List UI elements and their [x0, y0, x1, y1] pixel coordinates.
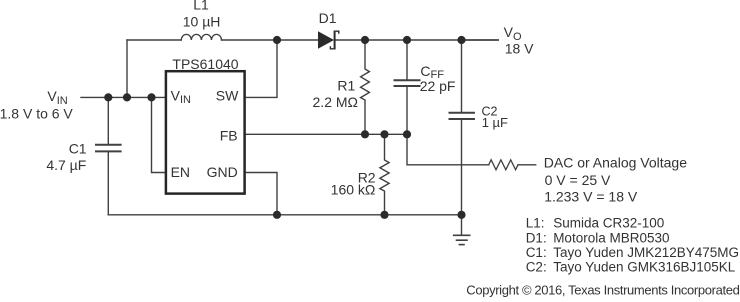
- node dot FB-CFF: [403, 130, 411, 138]
- svg-text:4.7 µF: 4.7 µF: [46, 157, 86, 173]
- svg-text:D1: D1: [319, 10, 337, 26]
- svg-text:FB: FB: [220, 128, 238, 144]
- svg-text:10 µH: 10 µH: [183, 13, 221, 29]
- svg-text:Tayo Yuden JMK212BY475MG: Tayo Yuden JMK212BY475MG: [553, 245, 739, 260]
- capacitor CFF: [395, 40, 420, 134]
- capacitor C1: [96, 97, 121, 214]
- svg-text:1.233 V = 18 V: 1.233 V = 18 V: [544, 189, 638, 205]
- node dot VIN-L1: [123, 93, 131, 101]
- svg-text:C1:: C1:: [526, 245, 547, 260]
- svg-text:C2:: C2:: [526, 260, 547, 275]
- svg-text:22 pF: 22 pF: [420, 78, 456, 94]
- wire VIN lead: [81, 96, 165, 98]
- svg-text:1.8 V to 6 V: 1.8 V to 6 V: [0, 106, 73, 122]
- svg-text:18 V: 18 V: [505, 41, 534, 57]
- node dot C2-rail: [457, 211, 465, 219]
- wire EN branch: [152, 97, 166, 172]
- node dot FB-R1: [361, 130, 369, 138]
- svg-text:Sumida CR32-100: Sumida CR32-100: [553, 216, 664, 231]
- svg-text:Copyright © 2016, Texas Instru: Copyright © 2016, Texas Instruments Inco…: [466, 282, 739, 297]
- svg-text:L1:: L1:: [526, 216, 545, 231]
- svg-text:VIN: VIN: [47, 88, 67, 107]
- wire SW lead: [245, 40, 277, 97]
- svg-text:DAC or Analog Voltage: DAC or Analog Voltage: [544, 155, 687, 171]
- wire DAC stub: [518, 164, 536, 166]
- svg-text:Motorola MBR0530: Motorola MBR0530: [553, 231, 669, 246]
- svg-text:2.2 MΩ: 2.2 MΩ: [313, 94, 358, 110]
- diode D1: [318, 31, 340, 50]
- svg-text:1 µF: 1 µF: [482, 115, 508, 130]
- svg-text:160 kΩ: 160 kΩ: [331, 182, 376, 198]
- svg-text:SW: SW: [216, 87, 239, 103]
- node dot R2-rail: [380, 211, 388, 219]
- node dot VIN-C1: [104, 93, 112, 101]
- svg-text:GND: GND: [207, 164, 238, 180]
- resistor DAC squiggle: [489, 160, 518, 170]
- wire top rail left: [127, 39, 181, 41]
- svg-text:0 V = 25 V: 0 V = 25 V: [545, 172, 611, 188]
- node dot FB-R2: [380, 130, 388, 138]
- node dot GND-rail: [273, 211, 281, 219]
- wire left vertical: [126, 40, 128, 97]
- wire GND lead: [245, 173, 277, 215]
- svg-text:Tayo Yuden GMK316BJ105KL: Tayo Yuden GMK316BJ105KL: [553, 260, 736, 275]
- node dot CFF-rail: [403, 36, 411, 44]
- node dot VO: [457, 36, 465, 44]
- capacitor C2: [450, 40, 475, 215]
- svg-text:R1: R1: [337, 78, 355, 94]
- resistor R1: [361, 40, 370, 134]
- wire top rail middle: [222, 39, 319, 41]
- ground: [454, 215, 470, 245]
- inductor L1: [181, 34, 221, 40]
- node dot VIN-EN: [147, 93, 155, 101]
- svg-text:C1: C1: [69, 141, 87, 157]
- wire VO lead: [462, 39, 499, 41]
- svg-text:D1:: D1:: [526, 231, 547, 246]
- resistor R2: [380, 134, 389, 215]
- op-amp U1 box TPS61040: [166, 71, 245, 193]
- svg-text:L1: L1: [193, 0, 209, 13]
- wire bottom rail: [108, 214, 461, 216]
- wire top rail right: [336, 39, 499, 41]
- svg-text:TPS61040: TPS61040: [172, 56, 238, 72]
- wire DAC branch: [407, 134, 489, 165]
- wire FB lead: [245, 133, 407, 135]
- node dot R1-rail: [361, 36, 369, 44]
- svg-text:EN: EN: [171, 164, 190, 180]
- node dot SW-rail: [273, 36, 281, 44]
